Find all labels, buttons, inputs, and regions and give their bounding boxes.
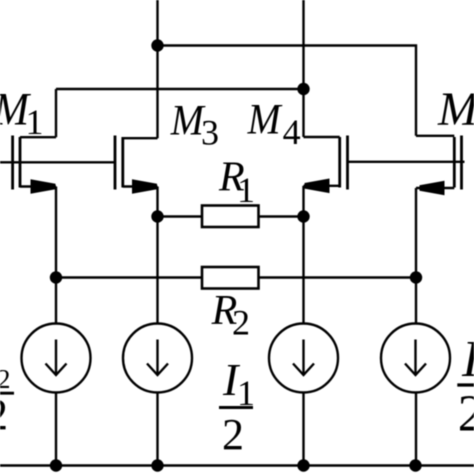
wire: R1 left lead: [158, 215, 203, 217]
current source I3: [269, 324, 338, 393]
wire: gate wire M4 gate to M2 gate: [348, 161, 465, 163]
wire: R2 right lead: [259, 276, 417, 278]
wire: M3 source down to R1 left node: [156, 187, 158, 217]
svg-text:I: I: [461, 331, 474, 388]
wire: M3 drain vertical to top edge: [156, 0, 158, 138]
transistor M2: [416, 136, 462, 196]
wire: I1 bottom to ground bus: [55, 393, 57, 466]
wire: R2 left lead: [56, 276, 202, 278]
transistor M4: [304, 136, 348, 194]
wire: M2 source down through R2 right node: [415, 188, 417, 278]
resistor R1: [202, 206, 259, 228]
wire: I3 bottom to ground bus: [302, 393, 304, 466]
svg-text:1: 1: [26, 102, 44, 142]
svg-text:2: 2: [0, 390, 8, 439]
svg-text:M: M: [247, 97, 283, 144]
svg-text:4: 4: [283, 112, 301, 152]
node: ground bus junction 1: [50, 459, 62, 471]
node: ground bus junction 2: [151, 459, 163, 471]
node: ground bus junction 3: [297, 459, 309, 471]
current source I2: [123, 324, 192, 393]
wire: R1 right node down to current source I3: [302, 217, 304, 325]
wire: M1 source down to R2 left node: [55, 187, 57, 278]
wire: M4 source down to R1 right node: [302, 186, 304, 217]
node: ground bus junction 4: [409, 459, 421, 471]
wire: R2 right node down to current source I4: [415, 278, 417, 325]
node: R2 right junction: [410, 271, 422, 283]
svg-text:3: 3: [201, 113, 219, 153]
node: R1 left junction: [151, 210, 163, 222]
transistor M1: [13, 136, 56, 194]
svg-text:1: 1: [237, 170, 255, 210]
wire: gate wire input to M1 and M3 gates: [0, 161, 116, 163]
wire: I2 bottom to ground bus: [156, 393, 158, 466]
svg-text:2: 2: [458, 386, 474, 443]
node: R1 right junction: [297, 210, 309, 222]
wire: M4 drain vertical to top edge: [302, 0, 304, 137]
wire: top rail from node at (157.5,45.5) to M2 drain corner: [158, 46, 417, 136]
wire: R1 left node down to current source I2: [156, 217, 158, 325]
wire: M1 drain corner vertical: [55, 89, 57, 137]
label I1/2 (middle): [219, 354, 255, 459]
svg-text:2: 2: [232, 303, 250, 343]
label I4/2 (right, clipped): [457, 331, 474, 443]
node: top right junction: [297, 83, 309, 95]
transistor M3: [115, 136, 158, 194]
wire: bottom ground bus: [0, 464, 474, 466]
current source I1: [22, 324, 91, 393]
resistor R2: [202, 267, 259, 289]
node: R2 left junction: [50, 271, 62, 283]
wire: rail from M1 drain to M4 drain node: [56, 88, 304, 90]
wire: R1 right lead: [259, 215, 304, 217]
wire: I4 bottom to ground bus: [415, 393, 417, 466]
label I2/2 (left, clipped): [0, 364, 14, 439]
node: top left junction: [151, 39, 163, 51]
svg-text:M: M: [437, 83, 474, 136]
svg-text:2: 2: [222, 410, 244, 459]
current source I4: [381, 324, 450, 393]
wire: R2 left node down to current source I1: [55, 278, 57, 325]
